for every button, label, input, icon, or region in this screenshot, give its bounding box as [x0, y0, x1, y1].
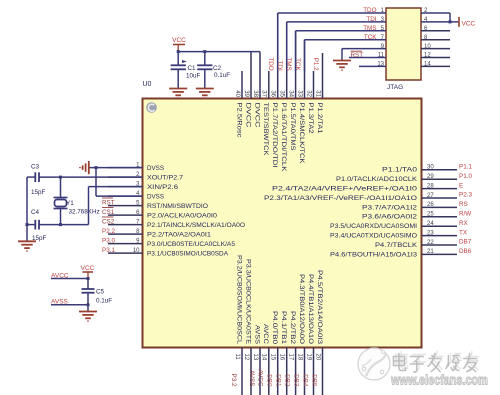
svg-text:P2.3/TA1/A3/VREF-/VeREF-/OA1I1: P2.3/TA1/A3/VREF-/VeREF-/OA1I1/OA1O [264, 195, 417, 202]
wire VCC rail to DVCC pins [178, 51, 260, 53]
svg-text:27: 27 [427, 193, 434, 199]
svg-text:P2.4/TA2/A4/VREF+/VeREF+/OA1I0: P2.4/TA2/A4/VREF+/VeREF+/OA1I0 [272, 186, 418, 193]
svg-text:JTAG: JTAG [387, 84, 403, 91]
svg-text:P2.2: P2.2 [102, 228, 115, 235]
svg-text:P2.1/TAINCLK/SMCLK/A1/OA0O: P2.1/TAINCLK/SMCLK/A1/OA0O [147, 222, 245, 229]
pin 3 stub (left) [108, 186, 143, 188]
svg-text:20: 20 [314, 354, 320, 361]
capacitor C2 0.1uF [204, 52, 206, 66]
pin 13 stub (bottom, wire to off-page) [259, 348, 261, 395]
pin 1 stub (left) [108, 167, 143, 169]
JTAG pin 14 stub [421, 65, 450, 67]
svg-text:P1.7/TA2/TDO/TDI: P1.7/TA2/TDO/TDI [271, 103, 278, 168]
svg-text:P4.6/TBOUTH/A15/OA1I3: P4.6/TBOUTH/A15/OA1I3 [330, 251, 418, 258]
svg-text:C1: C1 [188, 65, 197, 72]
svg-text:26: 26 [427, 202, 434, 208]
pin 33 stub (top) [304, 40, 306, 99]
pin 24 stub (right) [422, 225, 458, 227]
svg-text:P1.2/TA1: P1.2/TA1 [316, 103, 323, 135]
MCU U0 (MSP430F2274) body [143, 99, 422, 348]
svg-text:P3.2/UCB0SOMI/UCB0SCL: P3.2/UCB0SOMI/UCB0SCL [235, 255, 242, 345]
svg-text:17: 17 [287, 354, 293, 361]
svg-text:P2.3: P2.3 [459, 192, 472, 199]
capacitor C1 10uF (polarized) [177, 52, 179, 66]
wire left branch C3-C4 [26, 177, 28, 241]
junction AVCC [87, 277, 90, 280]
svg-text:12: 12 [424, 53, 431, 59]
svg-text:TDO: TDO [267, 57, 274, 70]
wire DVSS pin1 to ground [89, 167, 143, 169]
svg-text:RX: RX [459, 220, 469, 227]
svg-text:DB6: DB6 [459, 248, 472, 255]
svg-text:34: 34 [287, 90, 293, 97]
svg-text:15pF: 15pF [31, 189, 46, 196]
svg-text:P1.6/TA1/TDI/TCLK: P1.6/TA1/TDI/TCLK [280, 103, 287, 173]
svg-text:C5: C5 [96, 289, 105, 296]
wire TMS: JTAG pin5 to MCU pin 34 [296, 30, 386, 32]
svg-text:TCK: TCK [364, 34, 377, 41]
svg-text:37: 37 [261, 90, 267, 97]
svg-text:P4.2/TB2: P4.2/TB2 [289, 311, 296, 345]
wire AVCC [51, 278, 88, 280]
svg-text:40: 40 [234, 90, 240, 97]
svg-text:38: 38 [252, 90, 258, 97]
svg-text:C4: C4 [31, 209, 40, 216]
svg-text:P3.6/A6/OA0I2: P3.6/A6/OA0I2 [362, 214, 418, 221]
svg-text:13: 13 [252, 354, 258, 361]
junction at C1 [177, 50, 180, 53]
svg-text:DB2: DB2 [283, 374, 290, 387]
wire XOUT net (pin 2 row) with capacitor C3 in series [27, 176, 35, 178]
pin 38 stub (top) [259, 52, 261, 99]
svg-text:VCC: VCC [81, 265, 95, 272]
svg-text:39: 39 [243, 90, 249, 97]
svg-text:CS2: CS2 [102, 218, 115, 225]
node XOUT junction [59, 176, 62, 179]
svg-text:TEST/SBWTCK: TEST/SBWTCK [262, 103, 269, 157]
pin 39 stub (top) [250, 52, 252, 99]
wire JTAG pin9 to ground [342, 48, 386, 50]
pin 23 stub (right) [422, 235, 458, 237]
pin 27 stub (right) [422, 197, 458, 199]
svg-text:DB5: DB5 [310, 374, 317, 387]
svg-text:TCK: TCK [294, 58, 301, 71]
ground (analog) [79, 312, 97, 322]
svg-text:P1.1: P1.1 [459, 164, 472, 171]
pin 9 stub (left) [108, 243, 143, 245]
svg-text:XIN/P2.6: XIN/P2.6 [147, 184, 179, 191]
JTAG pin 4 stub [421, 21, 450, 23]
svg-text:RST: RST [351, 52, 364, 59]
svg-text:0.1uF: 0.1uF [214, 72, 230, 79]
svg-text:29: 29 [427, 174, 434, 180]
svg-text:23: 23 [427, 230, 434, 236]
svg-text:28: 28 [427, 183, 434, 189]
wire TCK: JTAG pin7 to MCU pin 33 [305, 39, 387, 41]
svg-text:36: 36 [270, 90, 276, 97]
svg-text:TDI: TDI [366, 16, 376, 23]
svg-text:P4.5/TB2/A14/OA0I3: P4.5/TB2/A14/OA0I3 [316, 270, 323, 345]
pin 20 stub (bottom, wire to off-page) [322, 348, 324, 395]
svg-text:DB0: DB0 [266, 374, 273, 387]
pin 7 stub (left) [108, 224, 143, 226]
svg-text:24: 24 [427, 221, 434, 227]
pin 10 stub (left) [108, 252, 143, 254]
wire XIN net bottom run with capacitor C4 in series [27, 224, 35, 226]
pin 18 stub (bottom, wire to off-page) [304, 348, 306, 395]
svg-text:P3.0/UCB0STE/UCA0CLK/A5: P3.0/UCB0STE/UCA0CLK/A5 [147, 241, 236, 248]
pin 34 stub (top) [295, 31, 297, 99]
watermark logo circle on IC corner [146, 102, 157, 113]
watermark elecfans logo [358, 348, 390, 380]
svg-text:P1.0: P1.0 [459, 173, 472, 180]
crystal Y1 32.768KHz [60, 177, 62, 197]
svg-text:18: 18 [296, 354, 302, 361]
svg-text:DVSS: DVSS [147, 193, 164, 200]
JTAG pin 8 stub [421, 39, 450, 41]
wire AVSS [51, 304, 88, 306]
wire TDI: JTAG pin3 to MCU pin 35 [287, 21, 386, 23]
svg-text:P3.1/UCB0SIMO/UCB0SDA: P3.1/UCB0SIMO/UCB0SDA [147, 250, 229, 257]
JTAG pin 10 stub [421, 48, 450, 50]
svg-text:11: 11 [234, 354, 240, 361]
svg-text:P3.3/UCB0CLK/UCA0STE: P3.3/UCB0CLK/UCA0STE [244, 259, 251, 344]
pin 17 stub (bottom, wire to off-page) [295, 348, 297, 395]
svg-text:AVCC: AVCC [262, 324, 269, 345]
svg-text:CS1: CS1 [102, 209, 115, 216]
svg-text:P3.5/UCA0RXD/UCA0SOMI: P3.5/UCA0RXD/UCA0SOMI [330, 223, 417, 230]
svg-text:32.768KHz: 32.768KHz [69, 208, 100, 215]
svg-text:RS: RS [459, 201, 468, 208]
svg-text:R/W: R/W [459, 211, 471, 218]
svg-text:P3.1: P3.1 [102, 247, 115, 254]
svg-text:DVCC: DVCC [253, 103, 260, 129]
pin 11 stub (bottom, wire to off-page) [241, 348, 243, 395]
svg-text:P3.7/A7/OA1I2: P3.7/A7/OA1I2 [362, 204, 418, 211]
pin 31 stub (top) [322, 53, 324, 99]
svg-text:19: 19 [305, 354, 311, 361]
svg-text:P3.2: P3.2 [230, 374, 237, 387]
node XIN junction [59, 223, 62, 226]
svg-text:P4.4/TB1/A13/OA1O: P4.4/TB1/A13/OA1O [307, 274, 314, 344]
svg-text:TX: TX [459, 229, 468, 236]
svg-text:AVSS: AVSS [248, 370, 255, 386]
svg-text:DB7: DB7 [459, 239, 472, 246]
svg-text:11: 11 [378, 53, 385, 59]
junction AVSS [87, 303, 90, 306]
svg-text:P4.3/TB0/A12/OA0O: P4.3/TB0/A12/OA0O [298, 274, 305, 344]
pin 5 stub (left) [108, 205, 143, 207]
wire TDO: JTAG pin1 to MCU pin 36 [278, 12, 386, 14]
svg-text:DB3: DB3 [292, 374, 299, 387]
svg-text:P4.1/TB1: P4.1/TB1 [280, 311, 287, 345]
connector JTAG body [386, 8, 421, 80]
svg-text:DB1: DB1 [275, 374, 282, 387]
svg-text:RST: RST [102, 199, 115, 206]
svg-text:21: 21 [427, 249, 434, 255]
svg-text:P1.1/TA0: P1.1/TA0 [382, 167, 418, 174]
svg-text:P1.2: P1.2 [312, 58, 319, 71]
pin 6 stub (left) [108, 214, 143, 216]
wire JTAG pin13 [359, 65, 386, 67]
pin 36 stub (top) [277, 13, 279, 99]
pin 19 stub (bottom, wire to off-page) [313, 348, 315, 395]
svg-text:P4.0/TB0: P4.0/TB0 [271, 311, 278, 345]
svg-text:P1.3/TA2: P1.3/TA2 [307, 103, 314, 135]
pin 25 stub (right) [422, 216, 458, 218]
svg-text:DVSS: DVSS [147, 165, 164, 172]
svg-text:www.elecfans.com: www.elecfans.com [390, 373, 488, 388]
svg-text:AVCC: AVCC [257, 369, 264, 386]
pin 30 stub (right) [422, 169, 458, 171]
svg-text:Y1: Y1 [66, 200, 74, 207]
svg-text:DB4: DB4 [301, 374, 308, 387]
wire DVSS pin4 branch [95, 168, 97, 197]
pin 22 stub (right) [422, 244, 458, 246]
svg-text:32: 32 [305, 90, 311, 97]
svg-text:13: 13 [377, 62, 384, 68]
svg-text:10: 10 [133, 248, 140, 254]
ground (JTAG pin 9) [333, 61, 351, 71]
svg-text:AVSS: AVSS [253, 325, 260, 344]
wire JTAG pins 2-4 to VCC [449, 13, 451, 22]
svg-text:12: 12 [243, 354, 249, 361]
pin 14 stub (bottom, wire to off-page) [268, 348, 270, 395]
junction pin1/pin4 [95, 166, 98, 169]
pin 15 stub (bottom, wire to off-page) [277, 348, 279, 395]
pin 26 stub (right) [422, 206, 458, 208]
svg-text:P4.7/TBCLK: P4.7/TBCLK [375, 242, 418, 249]
wire XIN to pin 3 [61, 224, 89, 226]
pin 29 stub (right) [422, 178, 458, 180]
svg-text:C3: C3 [31, 164, 40, 171]
svg-text:P1.4/SMCLK/TCK: P1.4/SMCLK/TCK [298, 103, 305, 165]
svg-text:TMS: TMS [363, 25, 376, 32]
svg-text:P2.5/Rosc: P2.5/Rosc [235, 103, 242, 138]
svg-text:E: E [459, 182, 463, 189]
ground (C1) [169, 89, 187, 99]
svg-text:TDO: TDO [363, 7, 376, 14]
pin 2 stub (left) [108, 176, 143, 178]
svg-text:RST/NMI/SBWTDIO: RST/NMI/SBWTDIO [147, 203, 208, 210]
svg-text:P1.5/TA0/TMS: P1.5/TA0/TMS [289, 103, 296, 151]
pin 8 stub (left) [108, 233, 143, 235]
svg-text:14: 14 [261, 354, 267, 361]
svg-text:30: 30 [427, 165, 434, 171]
svg-text:P3.4/UCA0TXD/UCA0SIMO: P3.4/UCA0TXD/UCA0SIMO [330, 233, 417, 240]
svg-text:VCC: VCC [462, 21, 476, 28]
svg-text:10uF: 10uF [186, 73, 201, 80]
JTAG pin 6 stub [421, 30, 450, 32]
pin 16 stub (bottom, wire to off-page) [286, 348, 288, 395]
svg-text:P3.0: P3.0 [102, 237, 115, 244]
svg-text:P2.2/TA0/A2/OA0I1: P2.2/TA0/A2/OA0I1 [147, 231, 212, 238]
junction C4 left [26, 223, 29, 226]
svg-text:22: 22 [427, 240, 434, 246]
pin 40 stub (top) [241, 71, 243, 99]
svg-text:25: 25 [427, 212, 434, 218]
svg-text:14: 14 [424, 62, 431, 68]
pin 21 stub (right) [422, 253, 458, 255]
svg-text:10: 10 [424, 44, 431, 50]
svg-text:VCC: VCC [172, 37, 186, 44]
watermark text (elecfans Chinese brand, approximated strokes) [396, 352, 408, 369]
svg-text:C2: C2 [213, 65, 222, 72]
svg-text:XOUT/P2.7: XOUT/P2.7 [147, 174, 184, 181]
svg-text:0.1uF: 0.1uF [96, 298, 112, 305]
JTAG pin 12 stub [421, 57, 450, 59]
ground (DVSS, sideways) [80, 161, 89, 174]
svg-text:DVCC: DVCC [244, 103, 251, 129]
JTAG pin 2 stub [421, 12, 450, 14]
wire RST: JTAG pin11 [349, 57, 386, 59]
pin 4 stub (left) [108, 195, 143, 197]
ground (crystal) [18, 241, 36, 251]
svg-text:31: 31 [314, 90, 320, 97]
svg-text:16: 16 [279, 354, 285, 361]
pin 37 stub (top) [268, 71, 270, 99]
svg-text:15: 15 [270, 354, 276, 361]
svg-text:TDI: TDI [276, 61, 283, 71]
capacitor C5 0.1uF [87, 279, 89, 290]
pin 32 stub (top) [313, 71, 315, 99]
power symbol VCC (JTAG) [458, 17, 460, 27]
svg-text:TMS: TMS [285, 57, 292, 70]
pin 28 stub (right) [422, 188, 458, 190]
svg-text:P2.0/ACLK/A0/OA0I0: P2.0/ACLK/A0/OA0I0 [147, 212, 218, 219]
junction at C2 [203, 50, 206, 53]
svg-text:P1.0/TACLK/ADC10CLK: P1.0/TACLK/ADC10CLK [336, 176, 418, 183]
svg-text:33: 33 [296, 90, 302, 97]
svg-text:U0: U0 [143, 81, 152, 88]
svg-text:35: 35 [279, 90, 285, 97]
pin 35 stub (top) [286, 22, 288, 99]
ground (C2) [196, 89, 214, 99]
pin 12 stub (bottom, wire to off-page) [250, 348, 252, 395]
